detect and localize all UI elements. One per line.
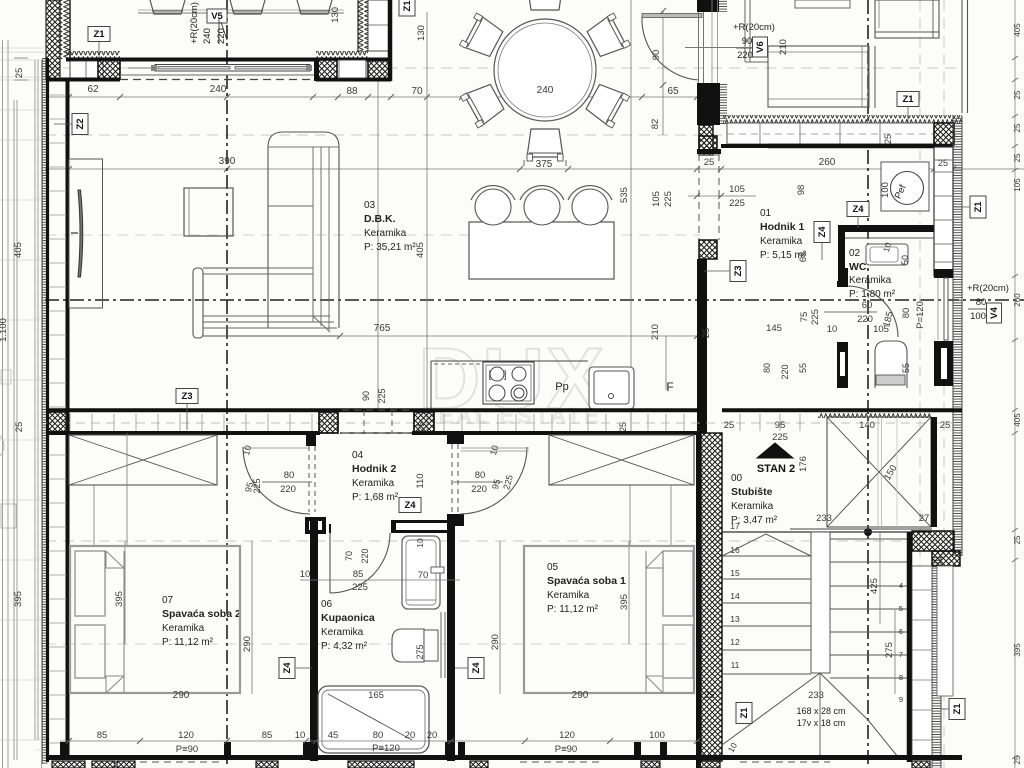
bedroom2 door leaf dashed xyxy=(308,446,310,512)
svg-text:405: 405 xyxy=(1013,413,1022,427)
label box Z3 rotated xyxy=(730,261,746,282)
right wall black pier below window xyxy=(934,341,953,386)
svg-text:Z1: Z1 xyxy=(739,707,750,719)
stair east wall black xyxy=(907,532,913,762)
hodnik2 south wall left pier xyxy=(305,517,326,534)
top wall bottom thick y79 xyxy=(46,78,120,82)
svg-text:+R(20cm): +R(20cm) xyxy=(189,2,200,44)
top wall thick line y59 xyxy=(66,58,391,62)
svg-text:25: 25 xyxy=(704,157,715,168)
svg-text:P: 35,21 m²: P: 35,21 m² xyxy=(364,242,416,253)
V4 label box rotated xyxy=(987,303,1002,323)
svg-text:50: 50 xyxy=(900,255,910,265)
thin vertical line x=663 entry dim xyxy=(662,11,664,97)
bed bedroom1 outline xyxy=(524,546,694,693)
svg-text:68: 68 xyxy=(798,252,809,263)
dimension line horizontal y=169 xyxy=(45,168,1024,170)
cabinet other apartment top xyxy=(795,0,850,8)
bed bedroom2 blanket line xyxy=(123,551,125,693)
svg-text:25: 25 xyxy=(1013,90,1022,99)
svg-text:Z4: Z4 xyxy=(404,500,416,511)
window sill crosshatch block a xyxy=(98,60,120,79)
svg-text:D.B.K.: D.B.K. xyxy=(364,213,396,225)
WC north wall xyxy=(838,225,934,232)
chair bottom-right xyxy=(584,81,629,128)
terrace strip cells xyxy=(35,89,47,91)
svg-text:90: 90 xyxy=(742,36,753,47)
svg-text:05: 05 xyxy=(547,562,559,573)
toilet kupaonica xyxy=(392,629,424,662)
svg-text:V4: V4 xyxy=(989,306,1000,318)
window band cells top right xyxy=(727,123,934,144)
window band hatch top right xyxy=(723,115,962,123)
svg-text:60: 60 xyxy=(862,300,873,311)
svg-text:20: 20 xyxy=(405,730,416,741)
svg-text:82: 82 xyxy=(650,119,661,130)
washbasin vanity xyxy=(402,536,440,609)
svg-text:+R(20cm): +R(20cm) xyxy=(733,22,775,33)
west wall cavity cells xyxy=(49,94,66,96)
couch other apartment xyxy=(768,46,868,107)
V6 label box rotated xyxy=(753,37,768,57)
svg-text:F: F xyxy=(666,380,673,394)
svg-text:]: ] xyxy=(504,370,507,381)
svg-text:10: 10 xyxy=(295,730,306,741)
wall top WC y144 xyxy=(721,144,934,148)
wardrobe bedroom2 X xyxy=(69,435,217,485)
svg-text:90: 90 xyxy=(361,391,371,401)
svg-text:405: 405 xyxy=(1013,23,1022,37)
dashed sill line xyxy=(727,133,934,135)
svg-text:P≡90: P≡90 xyxy=(176,744,198,755)
svg-text:15: 15 xyxy=(730,568,740,578)
svg-text:100: 100 xyxy=(970,311,986,322)
svg-text:WC: WC xyxy=(849,261,867,273)
svg-text:395: 395 xyxy=(1013,643,1022,657)
bar stool 3 xyxy=(572,189,608,225)
leader line V6 xyxy=(685,47,752,49)
window lower line xyxy=(120,74,316,76)
vertical dim line x=252 bedroom2 xyxy=(251,541,253,694)
svg-text:260: 260 xyxy=(1013,293,1022,307)
stairwell top wall xyxy=(722,408,962,412)
stair corner block bottom right xyxy=(912,531,954,551)
svg-text:12: 12 xyxy=(730,637,740,647)
chair top-left xyxy=(460,13,505,60)
svg-text:70: 70 xyxy=(411,86,423,97)
svg-text:220: 220 xyxy=(780,364,790,379)
stair central wall strip xyxy=(811,532,830,673)
kupaonica west wall xyxy=(310,520,318,761)
svg-text:Kupaonica: Kupaonica xyxy=(321,612,375,624)
svg-text:01: 01 xyxy=(760,208,772,219)
stair steps left flight xyxy=(722,555,811,557)
svg-text:225: 225 xyxy=(810,309,821,325)
wardrobe bedroom2 interior lines xyxy=(93,485,95,546)
svg-text:04: 04 xyxy=(352,450,364,461)
dining table round xyxy=(494,19,596,121)
svg-text:Keramika: Keramika xyxy=(364,228,407,239)
elevator inner strip lines xyxy=(877,417,879,527)
svg-text:V6: V6 xyxy=(755,41,766,53)
svg-text:10: 10 xyxy=(415,538,425,548)
label box Z2 rotated xyxy=(72,114,88,135)
svg-text:16: 16 xyxy=(730,545,740,555)
stairwell right cells upper xyxy=(937,566,953,696)
WC interior line xyxy=(845,237,934,239)
svg-text:17: 17 xyxy=(730,521,740,531)
dimension line horizontal y=97 xyxy=(45,96,700,98)
svg-text:220: 220 xyxy=(360,548,370,563)
svg-text:10: 10 xyxy=(827,324,838,335)
bar stool 2 xyxy=(524,189,560,225)
label box Z1 xyxy=(88,27,110,42)
wall crosshatch block hodnik1 mid xyxy=(699,240,717,259)
svg-text:25: 25 xyxy=(1013,123,1022,132)
svg-text:290: 290 xyxy=(490,634,501,650)
svg-text:225: 225 xyxy=(729,198,745,209)
svg-text:70: 70 xyxy=(418,570,429,581)
thin vertical line x=631 xyxy=(630,0,632,433)
svg-text:P≡120: P≡120 xyxy=(372,743,400,754)
DBK west wall outer black line xyxy=(46,58,49,762)
crosshatch pier left end xyxy=(48,412,68,432)
stair east cavity cells xyxy=(912,566,932,756)
label box Z1 stairs rotated xyxy=(736,703,752,724)
terrace strip horizontal ticks xyxy=(0,47,44,49)
kupaonica door swing arc xyxy=(330,533,390,593)
top-left wall zig band vertical xyxy=(60,0,70,59)
svg-text:233: 233 xyxy=(808,690,824,701)
toilet cistern kupaonica xyxy=(424,630,438,661)
chair bottom xyxy=(527,129,563,161)
hodnik1 opening sill line xyxy=(699,154,719,156)
bathtub diagonal xyxy=(328,694,412,740)
svg-text:240: 240 xyxy=(202,28,213,44)
label box Z1 right rotated xyxy=(970,196,986,218)
svg-text:395: 395 xyxy=(13,591,24,607)
bed bedroom1 blanket line xyxy=(645,551,647,693)
entry door swing arc xyxy=(642,17,699,80)
svg-text:210: 210 xyxy=(650,324,661,340)
main axis dash-dot vertical x=868 xyxy=(867,0,869,768)
svg-text:80: 80 xyxy=(475,470,486,481)
svg-text:25: 25 xyxy=(618,422,628,432)
bar stool 1 xyxy=(475,189,511,225)
svg-text:210: 210 xyxy=(778,39,789,55)
label box Z1 rotated top xyxy=(399,0,415,16)
window dashed line xyxy=(120,79,316,81)
svg-text:225: 225 xyxy=(663,191,674,207)
svg-text:P: 1,80 m²: P: 1,80 m² xyxy=(849,289,896,300)
svg-text:02: 02 xyxy=(849,248,861,259)
right wall cavity cells xyxy=(934,147,953,276)
svg-text:240: 240 xyxy=(537,85,554,96)
svg-text:Keramika: Keramika xyxy=(321,627,364,638)
vertical dim line x=500 bedroom1 xyxy=(499,541,501,694)
right exterior zipper hatch band lower xyxy=(932,556,941,768)
svg-text:85: 85 xyxy=(262,730,273,741)
svg-text:Z4: Z4 xyxy=(817,226,828,238)
right window glazing xyxy=(944,278,948,340)
bottom dim line xyxy=(60,740,700,742)
grid dashed horizontal y=235 xyxy=(45,234,700,236)
couch double line right xyxy=(868,46,870,108)
grid dashed horizontal y=644 xyxy=(45,643,700,645)
label box Z4 left rotated xyxy=(279,658,295,679)
svg-text:14: 14 xyxy=(730,591,740,601)
svg-text:765: 765 xyxy=(374,323,391,334)
svg-text:405: 405 xyxy=(13,242,24,258)
kupaonica dim line y580 xyxy=(300,579,460,581)
wall hatch strip below entry xyxy=(720,84,727,125)
grid dashed horizontal y=541 xyxy=(45,540,962,542)
stair floor line y529 xyxy=(790,528,932,530)
svg-text:70: 70 xyxy=(344,551,354,561)
svg-text:130: 130 xyxy=(330,7,341,23)
svg-text:62: 62 xyxy=(87,84,99,95)
TV screen xyxy=(78,190,83,277)
svg-text:85: 85 xyxy=(353,569,364,580)
door jamb lines vertical xyxy=(698,12,700,83)
bedroom2 door swing arc xyxy=(243,447,310,514)
toilet hodnik xyxy=(875,341,907,388)
svg-text:45: 45 xyxy=(328,730,339,741)
svg-text:25: 25 xyxy=(1013,755,1022,764)
boiler Pef circle xyxy=(891,172,924,205)
coffee table xyxy=(184,188,233,236)
entry door leaf xyxy=(642,14,702,18)
svg-text:240: 240 xyxy=(210,84,227,95)
svg-text:395: 395 xyxy=(114,591,125,607)
svg-text:P≡90: P≡90 xyxy=(555,744,577,755)
stair arrow peak xyxy=(722,534,811,556)
svg-text:55: 55 xyxy=(798,363,808,373)
stair center vertical line xyxy=(819,673,821,757)
svg-text:220: 220 xyxy=(471,484,487,495)
grid dashed horizontal y=135 xyxy=(45,134,962,136)
duct shaft xyxy=(837,342,848,388)
bed bedroom1 pillows xyxy=(663,551,693,616)
svg-text:80: 80 xyxy=(762,363,772,373)
svg-text:290: 290 xyxy=(173,690,190,701)
svg-text:105: 105 xyxy=(729,184,745,195)
svg-text:405: 405 xyxy=(415,242,426,258)
dim 275 rot stairs xyxy=(894,610,896,694)
svg-text:105: 105 xyxy=(651,191,662,207)
top window hatch band right xyxy=(316,51,368,59)
svg-text:220: 220 xyxy=(280,484,296,495)
right exterior zipper hatch band xyxy=(953,116,962,556)
svg-text:233: 233 xyxy=(816,513,832,524)
elevator shaft X box xyxy=(827,417,931,527)
thin vertical dim x=663 lower xyxy=(662,97,664,135)
corner wall cells row xyxy=(317,60,366,78)
wall crosshatch block hodnik1 top xyxy=(699,136,717,151)
right chain ticks xyxy=(1012,56,1018,60)
opening dashed hodnik1 xyxy=(698,154,700,240)
TV cabinet xyxy=(69,159,103,308)
svg-text:390: 390 xyxy=(219,156,236,167)
svg-text:25: 25 xyxy=(883,134,893,144)
svg-text:165: 165 xyxy=(368,690,384,701)
svg-text:STAN 2: STAN 2 xyxy=(757,463,795,475)
svg-text:Keramika: Keramika xyxy=(547,590,590,601)
svg-text:290: 290 xyxy=(242,636,253,652)
kitchen line right xyxy=(665,336,667,390)
svg-text:+R(20cm): +R(20cm) xyxy=(967,283,1009,294)
boiler Pef box xyxy=(881,162,929,211)
bottom wall thick line xyxy=(46,755,962,760)
kitchen counter outline xyxy=(431,360,588,362)
svg-text:8: 8 xyxy=(899,673,903,682)
kupaonica door leaf xyxy=(329,533,331,593)
terrace hatch band vertical ladder xyxy=(43,58,48,764)
axis dot stairwell xyxy=(864,528,872,536)
sofa chaise xyxy=(268,147,339,328)
svg-text:55: 55 xyxy=(901,363,911,373)
wall zig band vertical x358 xyxy=(358,0,368,52)
bedroom1 door swing arc xyxy=(460,447,527,514)
svg-text:20: 20 xyxy=(427,730,438,741)
stairwell west wall crosshatch xyxy=(701,433,722,761)
bottom wall jamb piers xyxy=(60,742,67,760)
svg-text:395: 395 xyxy=(619,594,630,610)
stove xyxy=(483,362,534,404)
WC door swing arc xyxy=(847,286,898,337)
label box Z4 rotated hodnik1 xyxy=(814,222,830,243)
svg-text:07: 07 xyxy=(162,595,174,606)
corner cap black xyxy=(314,58,319,81)
svg-text:130: 130 xyxy=(416,25,427,41)
window sill crosshatch block b xyxy=(318,60,340,79)
stairwell top wall cells xyxy=(739,414,741,431)
label box Z4 right rotated xyxy=(468,658,484,679)
WC south door area jambs xyxy=(837,281,848,287)
svg-text:P: 11,12 m²: P: 11,12 m² xyxy=(547,604,599,615)
thin vertical line x=427 xyxy=(426,12,428,433)
svg-text:120: 120 xyxy=(178,730,194,741)
hodnik2 south wall right xyxy=(391,520,454,533)
wardrobe bedroom1 X xyxy=(549,435,694,485)
svg-text:100: 100 xyxy=(649,730,665,741)
label box Z1 top right xyxy=(897,92,919,107)
svg-text:275: 275 xyxy=(884,642,895,658)
bedroom1 door leaf dashed xyxy=(451,444,453,514)
svg-text:110: 110 xyxy=(415,473,426,488)
svg-text:Keramika: Keramika xyxy=(849,275,892,286)
stair bottom triangle xyxy=(722,673,868,745)
svg-text:Z3: Z3 xyxy=(181,391,192,402)
wardrobe bedroom1 interior lines xyxy=(629,485,631,546)
bottom wall crosshatch blocks xyxy=(52,761,85,768)
svg-text:Z1: Z1 xyxy=(902,94,914,105)
crosshatch pier b xyxy=(414,412,434,433)
svg-text:80: 80 xyxy=(373,730,384,741)
window vertical double line right xyxy=(961,0,963,113)
svg-text:Keramika: Keramika xyxy=(760,236,803,247)
interior wall dashed centerline xyxy=(46,422,962,424)
svg-text:6: 6 xyxy=(899,627,903,636)
label box Z4 hodnik2 xyxy=(399,498,421,513)
stairwell west wall black line xyxy=(696,432,701,768)
bedroom1 door jambs xyxy=(447,435,464,444)
right wall black pier above window xyxy=(934,269,953,278)
svg-text:Spavaća soba 2: Spavaća soba 2 xyxy=(162,608,241,620)
svg-text:535: 535 xyxy=(619,187,630,203)
wall thick line below band xyxy=(768,144,953,149)
svg-text:225: 225 xyxy=(772,432,788,443)
svg-text:P=120: P=120 xyxy=(915,301,926,329)
svg-text:[: [ xyxy=(489,370,492,381)
svg-text:27: 27 xyxy=(919,513,930,524)
terrace small shapes left edge xyxy=(0,436,4,456)
chair bottom-left xyxy=(460,81,505,128)
label box Z3 top xyxy=(176,389,198,404)
stairwell top zig band xyxy=(818,411,932,418)
sofa bottom leg xyxy=(193,268,203,338)
svg-text:100: 100 xyxy=(880,182,891,198)
kitchen island table xyxy=(469,222,614,279)
interior wall top line xyxy=(46,408,700,412)
svg-text:Z2: Z2 xyxy=(75,118,86,129)
svg-text:75: 75 xyxy=(799,312,810,323)
other apartment corridor wall lines xyxy=(744,0,746,62)
corner crosshatch block b xyxy=(368,60,389,79)
svg-text:25: 25 xyxy=(724,420,735,431)
svg-text:25: 25 xyxy=(14,422,25,433)
svg-text:105: 105 xyxy=(1013,178,1022,192)
wall black DBK-hodnik x697 xyxy=(697,259,707,433)
wall thick vertical x390 xyxy=(388,0,393,81)
svg-text:Z1: Z1 xyxy=(952,703,963,715)
svg-text:220: 220 xyxy=(857,314,873,325)
WC west wall xyxy=(838,225,845,281)
svg-text:98: 98 xyxy=(796,185,807,196)
svg-text:85: 85 xyxy=(97,730,108,741)
thin vertical line x=378 xyxy=(377,80,379,410)
stair steps right flight xyxy=(830,538,907,540)
V5 label box xyxy=(207,9,227,23)
grid dashed vertical x=944 xyxy=(943,0,945,116)
svg-text:Spavaća soba 1: Spavaća soba 1 xyxy=(547,575,626,587)
svg-text:290: 290 xyxy=(572,690,589,701)
main axis dash-dot horizontal y=300 xyxy=(45,299,1024,301)
svg-text:225: 225 xyxy=(377,388,387,403)
crosshatch pier a xyxy=(319,412,338,433)
svg-text:Z1: Z1 xyxy=(973,201,984,213)
corner crosshatch block a xyxy=(316,60,337,79)
svg-text:5: 5 xyxy=(899,604,903,613)
top-left chairs other apartment xyxy=(150,0,185,14)
svg-text:11: 11 xyxy=(731,660,740,670)
svg-text:90: 90 xyxy=(651,50,662,61)
svg-text:220: 220 xyxy=(737,50,753,61)
svg-text:25: 25 xyxy=(938,158,948,168)
svg-text:Hodnik 1: Hodnik 1 xyxy=(760,221,804,233)
kupaonica east wall xyxy=(447,520,455,761)
wall block crosshatch x701 y125 xyxy=(699,125,713,155)
stan2 triangle marker xyxy=(757,443,793,458)
bathtub xyxy=(318,686,429,753)
top-left wall crosshatch band vertical xyxy=(46,0,60,80)
svg-text:80: 80 xyxy=(976,297,987,308)
hodnik2 opening dashed xyxy=(342,409,412,411)
svg-text:10: 10 xyxy=(300,569,311,580)
bed bedroom2 outline xyxy=(70,546,240,693)
grid dashed vertical x=920 xyxy=(919,0,921,116)
table edge line top-left room xyxy=(138,12,344,14)
